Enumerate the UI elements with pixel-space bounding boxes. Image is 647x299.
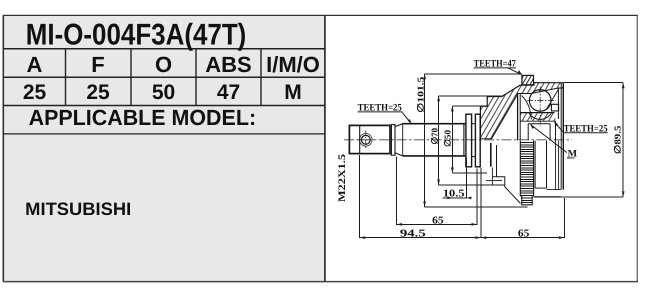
thread crosshair horizontal [357, 139, 376, 141]
arrow 65R left [481, 236, 487, 239]
bell bottom step line [492, 176, 496, 178]
ABS serrated band teeth [520, 143, 533, 203]
arrow dia89.5 top [622, 83, 625, 89]
boot ring 2 [475, 114, 480, 167]
table horizontal line under header [3, 76, 325, 78]
thread end circle [361, 135, 370, 144]
cone cylindrical step edge bottom [490, 143, 492, 167]
dia 101.5 extension top [425, 73, 522, 75]
svg-text:MI-O-004F3A(47T): MI-O-004F3A(47T) [26, 19, 247, 52]
cage right piece [551, 104, 558, 111]
arrow 94.5 right [475, 236, 481, 239]
dim 94.5 extension a [359, 155, 361, 238]
bell bottom cone edge [497, 145, 521, 203]
svg-text:∅101.5: ∅101.5 [416, 76, 426, 113]
boot groove bottom [472, 156, 476, 158]
dia 50 extension bottom [452, 172, 487, 174]
cone bottom transition [395, 153, 403, 156]
dia 101.5 dimension line [424, 74, 426, 207]
bell cone hatched wall [480, 83, 563, 139]
svg-text:65: 65 [518, 229, 530, 240]
arrow teeth25 left leader [408, 119, 412, 124]
arrow dia89.5 bottom [622, 191, 625, 197]
cylinder end face [463, 124, 465, 156]
arrow dia50 top [451, 106, 454, 112]
bell right edge [562, 83, 564, 190]
dim 10.5 line [442, 197, 466, 199]
bell right inner wall [557, 88, 559, 119]
ball seat arc [529, 113, 551, 119]
hub top edge [528, 123, 550, 125]
inner race band bottom edge [520, 120, 555, 122]
cylinder left edge [402, 124, 404, 156]
table column line 2 [130, 49, 132, 106]
dia 70 extension bottom [439, 184, 505, 186]
bell bottom land line [486, 180, 502, 182]
boot ring 1 [466, 114, 472, 167]
dia 50 dimension line [451, 106, 453, 173]
arrowheads [360, 70, 625, 239]
bell right step vertical 2 [558, 141, 560, 190]
dim 65 right extension [563, 198, 565, 238]
bell inner right step [555, 121, 557, 140]
table horizontal line under title [3, 48, 325, 50]
ABS serrated band outline [520, 141, 533, 205]
bell cone inner cavity line [492, 94, 518, 139]
main cylinder bottom edge [403, 155, 466, 157]
arrow M leader [530, 124, 534, 129]
svg-text:50: 50 [152, 81, 175, 104]
dimension texts [337, 58, 623, 239]
dia 50 extension top [452, 105, 487, 107]
thread washer face line [359, 125, 361, 153]
svg-text:25: 25 [86, 81, 110, 104]
bell cone left edge [479, 106, 481, 139]
svg-text:25: 25 [23, 81, 47, 104]
bell bottom right step [547, 189, 561, 191]
svg-text:I/M/O: I/M/O [266, 52, 320, 77]
arrow dia70 top [437, 96, 440, 102]
dia 70 dimension line [438, 96, 440, 185]
bell boot groove vertical 1 [534, 141, 536, 189]
table column line 4 [260, 49, 262, 106]
svg-text:APPLICABLE MODEL:: APPLICABLE MODEL: [29, 105, 257, 130]
bell right wall outer [560, 83, 562, 190]
svg-text:∅50: ∅50 [443, 129, 453, 147]
arrow teeth25 right leader [554, 122, 558, 126]
cone top transition [395, 124, 403, 127]
svg-text:M22X1.5: M22X1.5 [337, 154, 348, 202]
table horizontal line under applicable model [3, 133, 325, 135]
svg-text:MITSUBISHI: MITSUBISHI [25, 199, 131, 219]
dim 65 left extension b [476, 169, 478, 226]
centerline main axis [344, 139, 572, 141]
table column line 1 [65, 49, 67, 106]
dia 70 extension top [439, 95, 502, 97]
bell cone outer profile [480, 83, 563, 107]
inner race band top edge [520, 112, 554, 114]
left gray panel [4, 16, 324, 281]
bell cavity left wall [519, 94, 521, 141]
ABS tone ring hatched [522, 75, 534, 84]
bell boot groove bottom [535, 187, 546, 189]
ball [529, 90, 551, 112]
arrow 10.5 left [447, 197, 452, 200]
boot groove top [472, 123, 476, 125]
arrow dia70 bottom [437, 180, 440, 186]
arrow 65L left [397, 223, 403, 226]
svg-text:M: M [284, 81, 302, 104]
leader lines [402, 68, 567, 153]
dim 65 left extension a [396, 157, 398, 226]
cage right diagonal [546, 88, 560, 111]
bell shoulder inner edge [517, 94, 519, 141]
dia 89.5 extension top [563, 82, 623, 84]
dia 101.5 extension bottom [425, 206, 528, 208]
arrow dia101.5 bottom [423, 201, 426, 207]
bell right step vertical 1 [555, 141, 557, 190]
dim 65 right line [481, 237, 565, 239]
arrow dia101.5 top [423, 74, 426, 80]
M leader [531, 125, 567, 153]
teeth25 left leader [402, 112, 411, 123]
bell boot groove vertical 2 [546, 141, 548, 189]
bell bottom edge [534, 196, 561, 198]
svg-text:∅89.5: ∅89.5 [612, 125, 622, 154]
arrow dia50 bottom [451, 168, 454, 174]
dim 94.5 extension b [480, 168, 482, 238]
dim 65 left line [397, 223, 477, 225]
svg-text:10.5: 10.5 [443, 188, 465, 199]
arrow 65R right [559, 236, 565, 239]
inner race hatched band [520, 113, 555, 122]
hub left edge [527, 124, 529, 141]
cage left arc [522, 96, 532, 120]
threaded stub outline [349, 125, 390, 153]
arrow teeth47 leader [518, 70, 522, 75]
svg-text:A: A [27, 52, 43, 77]
svg-text:O: O [155, 52, 172, 77]
ball vertical centerline [539, 87, 541, 127]
arrow 94.5 left [360, 236, 366, 239]
ball horizontal centerline [527, 99, 556, 101]
teeth47 leader [507, 68, 521, 75]
bell shoulder inner boundary [518, 88, 564, 94]
arrow 10.5 right [466, 197, 471, 200]
svg-text:94.5: 94.5 [400, 228, 426, 239]
arrow 65L right [472, 223, 478, 226]
dim 94.5 line [360, 237, 481, 239]
main cylinder top edge [403, 123, 466, 125]
dia 89.5 extension bottom [561, 196, 623, 198]
teeth25 right leader [555, 123, 564, 133]
dia 89.5 dimension line [622, 83, 624, 197]
table horizontal line under values [3, 105, 325, 107]
svg-text:ABS: ABS [205, 52, 251, 77]
spline ring [391, 125, 395, 156]
svg-text:∅70: ∅70 [429, 128, 439, 145]
dim 10.5 right extension [465, 158, 467, 199]
hub right edge [549, 124, 551, 141]
bell bottom cone diagonal 1 [491, 168, 493, 186]
svg-text:47: 47 [217, 81, 240, 104]
svg-text:F: F [91, 52, 104, 77]
table column line 3 [195, 49, 197, 106]
thread major circle [360, 134, 373, 147]
svg-text:65: 65 [432, 215, 444, 226]
bell cone bottom boundary [480, 138, 491, 140]
thread crosshair vertical [365, 131, 367, 150]
panel divider [324, 15, 326, 281]
